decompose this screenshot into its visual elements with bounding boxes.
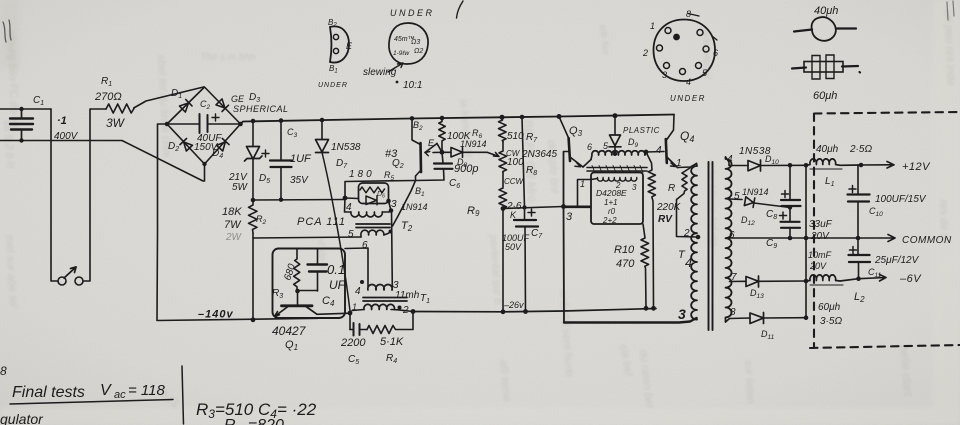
transformer T2 primary [345,198,392,217]
node bridge right vertex [238,122,243,127]
diode D4 [216,139,229,152]
transistor Q2 UJT [393,118,438,226]
node rail junctions [251,113,618,123]
svg-text:470: 470 [616,258,635,270]
wire T4 pin5 [730,198,743,201]
wire T2/T1 common vertical [391,211,394,287]
resistor R3 680 [294,249,300,291]
svg-text:1N914: 1N914 [401,202,428,212]
svg-text:40μh: 40μh [816,144,839,155]
note 8-pin socket [642,9,718,103]
svg-text:60μh: 60μh [813,90,837,102]
inductor L2 60uh [806,275,859,285]
capacitor C3 [262,121,292,200]
svg-text:slewing: slewing [363,67,397,78]
wire T4 pin8 [726,318,751,322]
svg-text:–140v: –140v [198,309,234,321]
wire switch left leg [51,109,58,281]
svg-text:100UF/15V: 100UF/15V [875,194,927,205]
resistor 2.6K [499,172,507,209]
node D5 bottom [251,198,256,203]
svg-text:E: E [428,138,435,148]
svg-text:·1: ·1 [57,115,67,127]
node C3 bottom [279,198,283,202]
svg-text:1N914: 1N914 [460,139,487,149]
svg-text:3·5Ω: 3·5Ω [820,316,842,327]
wire T4 pin7 [730,280,747,282]
svg-text:2·5Ω: 2·5Ω [849,144,872,155]
transformer T3 secondary [597,178,636,182]
wire upper AC rail [0,108,51,110]
resistor R4 5.1K [367,312,413,334]
diode D3 [216,99,229,112]
node bridge bottom vertex [202,162,206,166]
svg-text:6: 6 [587,142,592,152]
wire emitter junction to UJT [433,144,442,153]
svg-text:8: 8 [0,364,7,378]
wire +12V arrow [861,162,894,169]
diode D1 [179,99,192,112]
polarity plus C9 [780,212,787,219]
node T2 primary right [389,208,394,213]
wire T2 secondary pin5 feed [253,237,361,238]
resistor R5 180 [360,187,385,193]
note R3 R10 values handwriting [196,400,317,425]
svg-text:50V: 50V [505,242,522,252]
svg-text:–26v: –26v [503,300,524,310]
svg-text:PLASTIC: PLASTIC [623,126,660,135]
svg-text:4: 4 [685,255,692,270]
svg-text:= 118: = 118 [128,382,165,399]
node Q1 collector / T1 pin1 [348,311,353,316]
svg-text:7: 7 [731,272,737,283]
wire pot chain to -26V rail [502,209,504,313]
wire -26V rail [413,309,656,312]
transformer T4 primary winding [691,164,697,320]
transformer T3 primary winding [591,151,646,160]
svg-text:gulator: gulator [0,411,44,425]
capacitor C4 0.1UF [308,249,328,291]
resistor R2 18K [249,200,258,320]
svg-text:4: 4 [656,145,662,156]
wire lower AC rail [0,141,205,182]
svg-text:510: 510 [507,131,524,142]
note corner squiggles top-left [3,20,11,42]
svg-text:UNDER: UNDER [318,82,348,89]
note 60uh bead [792,55,860,102]
svg-text:1: 1 [650,21,655,31]
svg-text:E: E [346,41,353,51]
svg-text:3W: 3W [106,116,126,130]
wire 21V supply to trigger node 4 [253,199,345,202]
svg-text:R: R [668,183,675,194]
capacitor C7 100UF 50V [514,117,538,312]
node UJT emitter junction [440,150,445,155]
svg-text:8: 8 [686,9,691,19]
node Q4 base junction [644,150,649,155]
svg-text:18K: 18K [222,206,242,218]
svg-text:0.1: 0.1 [327,262,345,277]
svg-text:1: 1 [352,302,357,312]
svg-text:UNDER: UNDER [670,94,706,103]
svg-text:Ω3: Ω3 [411,39,420,46]
wire Q1 base node [297,291,318,305]
svg-text:3: 3 [662,70,667,80]
svg-text:3: 3 [632,183,637,192]
node 220K bottom [651,306,656,311]
svg-text:1+1: 1+1 [604,198,618,207]
transformer T3 core [587,166,647,173]
node pot bottom [501,206,506,211]
svg-text:180: 180 [349,169,375,180]
node bridge left vertex [165,122,170,127]
svg-text:D4208E: D4208E [596,188,627,198]
note final tests handwriting [0,364,165,425]
svg-text:900p: 900p [454,163,478,175]
switch S1 [58,267,83,285]
wire rectifier bus vertical B [805,165,807,317]
svg-text:35V: 35V [290,175,309,186]
node C11 bottom / L2 out [856,276,861,281]
node R10 bottom [644,306,649,311]
node R2 bottom on -140V rail [251,317,256,322]
svg-text:1: 1 [580,179,585,189]
svg-text:SPHERICAL: SPHERICAL [233,104,289,114]
wire main positive rail [241,115,675,125]
node node3 junction [561,204,566,209]
node trigger node 4 [343,196,348,201]
svg-text:2W: 2W [225,232,243,243]
svg-text:40μh: 40μh [814,5,838,17]
svg-text:ac: ac [114,389,126,401]
wire T4 pin4 [726,157,749,166]
svg-text:2+2: 2+2 [602,216,617,225]
transformer T2 secondary [361,230,393,238]
wire node3 stub into module [564,206,591,209]
svg-text:3: 3 [678,306,686,322]
wire bridge negative to -140V rail [157,124,318,321]
svg-text:1-9ℓw: 1-9ℓw [393,50,410,57]
svg-text:3: 3 [391,199,397,210]
note transistor case outline B2/E/B1 [318,18,353,89]
note slewing circle [363,23,428,91]
node T1 pin2 rail [411,309,416,314]
svg-text:2N3645: 2N3645 [521,149,557,160]
capacitor C10 100UF [848,165,870,238]
svg-text:60μh: 60μh [818,302,841,313]
svg-text:6: 6 [729,230,735,241]
svg-text:11mh: 11mh [395,290,420,301]
svg-text:The s m bhn: The s m bhn [200,52,256,63]
node C7 top [522,205,526,209]
diode D10 1N538 [748,160,806,171]
svg-text:2200: 2200 [340,337,366,349]
wire node3 horizontal [503,207,564,209]
capacitor C6 900p [416,152,453,180]
module D4208E outline [591,173,643,225]
svg-text:5W: 5W [232,182,249,193]
wire -6V arrow [859,275,887,282]
svg-text:2: 2 [402,305,409,316]
node pot chain rail [501,309,506,314]
MAIN SCHEMATIC INK [0,87,960,348]
svg-text:–6V: –6V [899,273,922,285]
wire node3 vertical to bottom [563,152,566,323]
capacitor C2 [167,114,241,133]
node trigger node 3 [386,199,391,204]
svg-text:5: 5 [348,229,354,240]
svg-text:40427: 40427 [272,324,307,338]
resistor 220K RV [646,152,655,308]
diode D7 1N538 [316,120,351,311]
diode D12 1N914 [744,196,790,207]
svg-text:6: 6 [362,240,368,251]
node T4 primary tap 2 [696,235,701,240]
note 40uh bead [794,5,856,41]
diode D13 [746,276,806,287]
svg-text:400V: 400V [54,131,79,142]
diode D11 [750,313,806,324]
transformer T4 core [709,162,713,330]
svg-text:220K: 220K [656,202,682,213]
svg-text:V: V [100,382,112,399]
svg-text:5·1K: 5·1K [380,336,404,348]
module box R5 D6 [359,183,389,204]
svg-text:r0: r0 [608,207,616,216]
svg-text:4: 4 [727,154,733,165]
node T3 tap D9 [613,152,617,156]
transformer T1 [345,248,407,311]
transistor Q3 2N3645 [559,117,591,168]
svg-text:10:1: 10:1 [403,80,422,91]
potentiometer R8 100 [499,142,507,173]
svg-text:+12V: +12V [902,161,931,173]
svg-text:20V: 20V [809,261,827,271]
svg-text:Final tests: Final tests [12,384,85,401]
svg-text:2: 2 [683,228,690,239]
svg-text:GE: GE [231,94,245,104]
diode D9 plastic [609,116,621,154]
svg-text:R10=820: R10=820 [224,417,284,425]
wire Q4 base [646,151,664,154]
module PCA111 outline [273,249,346,319]
svg-text:20V: 20V [810,231,830,242]
transistor Q4 [666,115,697,168]
note stray pen stroke [457,1,464,18]
resistor R emitter feedback [677,168,698,238]
node Q1 base junction [295,289,300,294]
wire T4 pin6 COMMON [730,237,859,239]
resistor R6 100K [439,118,445,152]
svg-text:RV: RV [658,214,673,225]
capacitor C1 [10,107,33,143]
svg-text:CCW: CCW [504,177,525,186]
inductor L1 40uh [806,159,861,169]
wiper arrow into R8 pot [487,152,499,156]
wire switch right leg [83,109,106,281]
svg-text:COMMON: COMMON [902,235,952,246]
svg-text:4: 4 [686,77,691,87]
zener diode D5 [245,121,263,200]
wire rectifier bus vertical A [789,165,791,238]
transformer T4 secondary winding [726,157,732,322]
node bus junctions [788,163,809,320]
wire T1 pin2 to -26V rail [398,310,413,312]
svg-text:6: 6 [713,48,718,58]
wire T3 secondary pin1 [578,179,598,207]
wire R1 to bridge top [134,87,204,108]
svg-text:UNDER: UNDER [390,8,435,18]
svg-text:8: 8 [730,307,736,318]
wire COMMON arrow [858,235,895,242]
diode D2 [180,139,193,152]
svg-text:1N538: 1N538 [331,142,361,153]
svg-text:UF: UF [329,278,346,292]
SECTION:TEXT [33,76,952,366]
svg-text:33uF: 33uF [809,219,833,230]
svg-text:1: 1 [676,158,682,169]
node C10 bottom [856,236,861,241]
wire collector node down to C5 [349,313,351,330]
transistor Q1 40427 [275,306,351,317]
svg-text:1N914: 1N914 [742,187,769,197]
node C7 bottom rail [523,309,528,314]
svg-text:1UF: 1UF [290,153,312,165]
wire heavy rail to T4 pin3 [564,318,697,323]
capacitor C5 2200 [350,323,367,336]
diode bridge frame [167,87,241,164]
svg-text:7W: 7W [224,219,242,231]
svg-text:2: 2 [642,48,648,58]
capacitor C9 10mF [781,222,801,228]
svg-text:270Ω: 270Ω [94,91,122,103]
svg-text:3: 3 [566,211,573,223]
svg-text:4: 4 [355,286,361,297]
resistor R10 470 [641,224,649,308]
svg-text:Ω2: Ω2 [414,48,423,55]
polarity plus C8 [782,191,789,198]
diode D8 1N914 [442,148,487,158]
svg-text:K: K [510,210,517,220]
svg-text:sur lielen: sur lielen [742,360,756,405]
resistor R1 [106,104,134,113]
capacitor C11 25uF [849,238,871,279]
capacitor C8 33UF [781,200,801,206]
transformer T2 core [356,224,390,228]
dashed enclosure box [810,112,960,348]
svg-text:PCA 111: PCA 111 [297,216,346,228]
diode D6 [345,196,377,205]
svg-text:4: 4 [346,202,352,213]
wire node4 to B1 top link [345,181,414,199]
node L1 out [859,163,864,168]
resistor R7 510 [499,117,507,141]
svg-text:5: 5 [734,191,740,202]
svg-text:25μF/12V: 25μF/12V [874,255,920,266]
svg-text:10mF: 10mF [808,250,832,260]
svg-text:R10: R10 [614,244,635,256]
